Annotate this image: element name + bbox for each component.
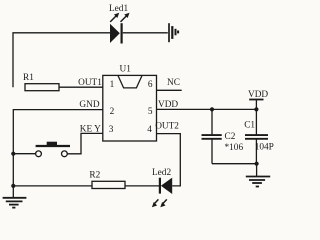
svg-text:R2: R2 [89, 171, 100, 181]
capacitor C1 [244, 109, 274, 163]
svg-text:U1: U1 [120, 65, 132, 75]
IC U1 [103, 65, 157, 141]
ground (right of Led1, rotated) [169, 23, 178, 42]
svg-text:2: 2 [110, 107, 115, 117]
LED Led2 [152, 168, 172, 208]
wire: Led1 cathode to ground symbol [123, 32, 168, 34]
wire: node to bottom-right ground [256, 164, 258, 176]
resistor R2 [89, 171, 125, 189]
capacitor C2 [202, 109, 244, 163]
svg-text:5: 5 [148, 107, 153, 117]
wire: R1 to pin 1 OUT1 [59, 86, 103, 88]
wire: pin 4 OUT2 right, down, to Led2 anode [157, 134, 181, 186]
junction: VDD row to C1 and VDD symbol [254, 107, 258, 111]
svg-text:OUT1: OUT1 [78, 78, 102, 88]
ground (bottom right) [246, 177, 270, 187]
svg-text:OUT2: OUT2 [155, 121, 179, 131]
svg-text:C1: C1 [244, 120, 255, 130]
ground (bottom left) [3, 198, 27, 208]
svg-text:VDD: VDD [158, 100, 178, 110]
svg-text:Led2: Led2 [152, 168, 171, 178]
svg-text:C2: C2 [225, 132, 236, 142]
LED Led1 [109, 4, 130, 44]
wire: ground rail to R2 [13, 185, 92, 187]
junction: C1/C2 bottom node [255, 162, 259, 166]
svg-text:NC: NC [167, 78, 180, 88]
svg-text:6: 6 [148, 80, 153, 90]
wire: switch right contact to pin 3 KEY [67, 133, 103, 153]
power VDD [248, 90, 268, 110]
svg-text:Led1: Led1 [109, 4, 128, 14]
svg-text:R1: R1 [23, 73, 34, 83]
svg-text:3: 3 [109, 125, 114, 135]
svg-text:1: 1 [110, 80, 115, 90]
wire: pin 2 GND left and down the rail [13, 110, 103, 197]
svg-text:4: 4 [147, 125, 152, 135]
svg-text:GND: GND [79, 100, 99, 110]
resistor R1 [23, 73, 59, 91]
wire: pin 5 VDD row to the right [157, 108, 257, 110]
wire: R2 to Led2 cathode [125, 185, 159, 187]
wire: left rail from R1 up and across top to Led1 anode [13, 33, 110, 87]
wire: rail to switch left contact [13, 153, 35, 155]
junction: ground rail to R2 row [11, 184, 15, 188]
junction: VDD row to C2 [210, 107, 214, 111]
svg-text:VDD: VDD [248, 90, 268, 100]
wire: pin 6 NC stub [157, 89, 182, 91]
junction: rail to switch [11, 152, 15, 156]
svg-text:*106: *106 [225, 143, 244, 153]
svg-text:104P: 104P [255, 143, 274, 153]
switch (pushbutton KEY) [36, 142, 70, 157]
wire: C2 bottom to ground node [212, 163, 257, 165]
